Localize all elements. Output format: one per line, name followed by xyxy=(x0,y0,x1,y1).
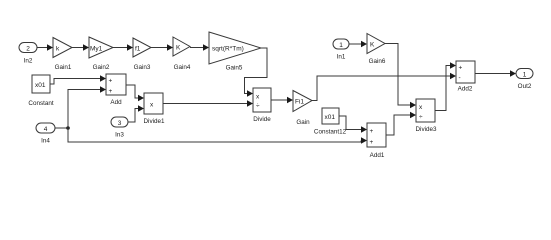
svg-text:Gain3: Gain3 xyxy=(134,64,151,71)
sum block Add2 xyxy=(456,61,475,83)
svg-text:Divide1: Divide1 xyxy=(144,118,165,125)
input port In4 xyxy=(36,123,55,133)
svg-text:Gain4: Gain4 xyxy=(174,64,191,71)
svg-text:1: 1 xyxy=(339,42,343,49)
wire In1 to Gain6 xyxy=(349,41,367,48)
gain Gain4 xyxy=(173,37,190,56)
product block Divide1 xyxy=(144,93,163,114)
svg-text:Constant12: Constant12 xyxy=(314,129,347,136)
wire Add2 to Out2 xyxy=(475,70,516,77)
sum block Add xyxy=(106,74,126,95)
svg-text:In2: In2 xyxy=(24,58,33,65)
wire In2 to Gain1 xyxy=(37,44,53,51)
wire Gain5 to Divide input 1 xyxy=(245,48,268,97)
svg-text:My1: My1 xyxy=(90,46,103,53)
wire junction to Add1 input 2 xyxy=(68,128,367,144)
wire junction to Add input 2 xyxy=(68,86,106,128)
svg-text:Gain2: Gain2 xyxy=(93,64,110,71)
wire Divide1 to Divide input 2 xyxy=(163,100,253,107)
gain Gain2 xyxy=(89,37,113,58)
wire Add1 to Divide3 input 2 xyxy=(386,112,416,135)
wire Gain3 to Gain4 xyxy=(151,44,173,51)
wire Gain to Add2 input 2 xyxy=(312,73,456,101)
svg-text:÷: ÷ xyxy=(256,103,260,110)
product block Divide xyxy=(253,88,271,112)
wire Gain1 to Gain2 xyxy=(72,44,89,51)
input port In2 xyxy=(19,43,37,53)
svg-text:+: + xyxy=(109,78,113,85)
svg-text:3: 3 xyxy=(118,120,122,127)
svg-text:1: 1 xyxy=(523,72,527,79)
svg-text:÷: ÷ xyxy=(419,114,423,121)
wire Constant to Add input 1 xyxy=(50,75,106,84)
gain Gain3 xyxy=(133,38,151,57)
svg-text:In3: In3 xyxy=(115,132,124,139)
svg-text:Fi1: Fi1 xyxy=(295,99,304,106)
svg-text:In1: In1 xyxy=(337,54,346,61)
svg-text:+: + xyxy=(109,88,113,95)
input port In3 xyxy=(111,117,128,127)
sum block Add1 xyxy=(367,123,386,147)
svg-text:-: - xyxy=(459,75,461,82)
svg-text:Add: Add xyxy=(110,99,122,106)
wire Constant12 to Add1 input 1 xyxy=(339,116,367,133)
output port Out2 xyxy=(516,69,533,79)
svg-text:Add1: Add1 xyxy=(370,152,385,159)
gain Gain1 xyxy=(53,38,72,58)
svg-text:2: 2 xyxy=(26,46,30,53)
svg-text:Divide3: Divide3 xyxy=(416,126,437,133)
wire Divide to Gain xyxy=(271,97,293,104)
svg-text:Gain6: Gain6 xyxy=(369,58,386,65)
svg-text:Gain: Gain xyxy=(296,119,310,126)
gain Gain6 xyxy=(367,34,385,54)
svg-text:In4: In4 xyxy=(41,138,50,145)
svg-text:Add2: Add2 xyxy=(458,86,473,93)
wire Divide3 to Add2 input 1 xyxy=(435,62,456,110)
svg-text:x01: x01 xyxy=(325,114,336,121)
svg-text:Constant: Constant xyxy=(28,100,53,107)
wire In4 to junction xyxy=(55,127,68,129)
svg-text:sqrt(R*Tm): sqrt(R*Tm) xyxy=(212,46,244,53)
svg-text:x01: x01 xyxy=(35,82,46,89)
svg-text:K: K xyxy=(370,42,375,49)
svg-text:+: + xyxy=(370,128,374,135)
svg-text:Gain5: Gain5 xyxy=(226,65,243,72)
svg-text:4: 4 xyxy=(44,126,48,133)
product block Divide3 xyxy=(416,99,435,122)
wire Gain2 to Gain3 xyxy=(113,44,133,51)
svg-text:Gain1: Gain1 xyxy=(55,64,72,71)
svg-text:Out2: Out2 xyxy=(518,83,532,90)
wire In3 to Divide1 input 2 xyxy=(128,105,144,122)
svg-text:+: + xyxy=(370,139,374,146)
junction node In4 branch xyxy=(66,126,70,130)
wire Gain6 to Divide3 input 1 xyxy=(385,44,416,109)
constant Constant12 xyxy=(322,108,339,124)
svg-text:f1: f1 xyxy=(135,46,141,53)
svg-text:Divide: Divide xyxy=(253,116,271,123)
gain Gain (Fi1) xyxy=(293,91,312,112)
wire Gain4 to Gain5 xyxy=(190,44,209,51)
wire Add to Divide1 input 1 xyxy=(126,85,144,101)
input port In1 xyxy=(333,39,349,49)
gain Gain5 xyxy=(209,32,261,64)
constant Constant xyxy=(32,75,50,93)
svg-text:+: + xyxy=(459,65,463,72)
svg-text:K: K xyxy=(176,45,181,52)
